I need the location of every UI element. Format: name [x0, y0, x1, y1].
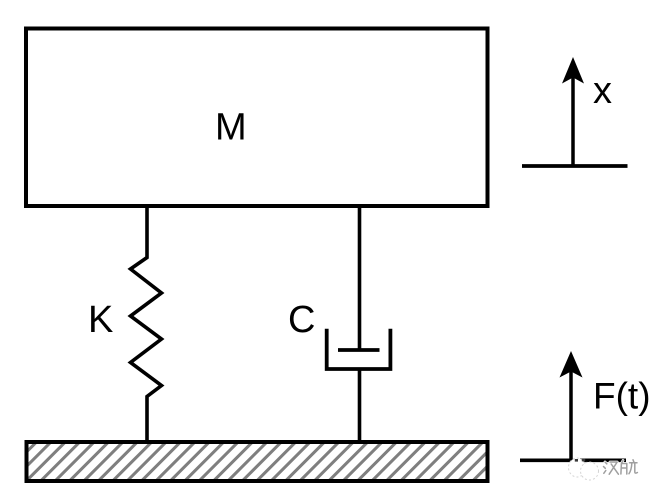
svg-text:K: K: [88, 299, 113, 341]
svg-text:F(t): F(t): [593, 375, 651, 416]
x displacement arrow: [562, 57, 584, 166]
svg-text:x: x: [593, 70, 612, 112]
svg-text:M: M: [215, 107, 247, 149]
damper C piston: [338, 348, 380, 352]
force F(t) arrow: [560, 351, 583, 460]
ground (hatched base): [0, 435, 576, 485]
damper C piston rod: [358, 207, 362, 351]
spring K: [131, 207, 162, 443]
damper C cylinder: [327, 329, 391, 369]
watermark text 汉航: [604, 460, 638, 474]
x reference line: [522, 164, 628, 168]
mass M: [26, 29, 488, 207]
svg-text:C: C: [288, 299, 315, 341]
damper C lower rod: [358, 369, 362, 442]
watermark logo: [569, 458, 599, 480]
F(t) reference line: [520, 458, 626, 462]
